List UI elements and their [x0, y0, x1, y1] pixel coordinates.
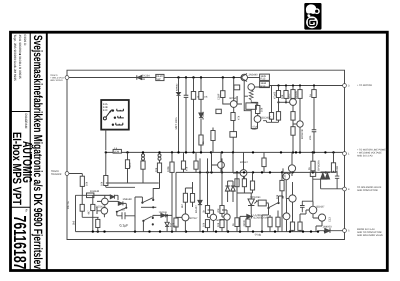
resistor R26b	[220, 220, 224, 228]
svg-text:MKT 100n: MKT 100n	[175, 117, 178, 129]
resistor R6	[231, 113, 235, 121]
transistor Q11 BC547	[289, 195, 296, 202]
svg-text:AND SOLENOID VALVE: AND SOLENOID VALVE	[357, 234, 383, 237]
wire R29	[237, 172, 253, 193]
svg-text:5,6V: 5,6V	[170, 223, 175, 226]
diode D7 BYW29	[325, 173, 329, 179]
component box R22	[234, 85, 240, 90]
transistor Q11b	[283, 213, 290, 220]
svg-text:03/26 D: 03/26 D	[23, 35, 27, 47]
resistor R30	[280, 180, 284, 190]
transistor Q13b	[297, 121, 303, 127]
wire R42 down	[299, 98, 301, 120]
wire D8	[318, 230, 343, 233]
wire D5	[240, 216, 253, 231]
wire right rail a	[344, 87, 346, 151]
resistor R20c	[174, 218, 178, 227]
svg-text:NTC: NTC	[129, 163, 132, 168]
wire x172	[171, 152, 173, 231]
wire Q12b	[306, 201, 313, 218]
svg-text:+ TO MOTOR: + TO MOTOR	[357, 84, 372, 87]
svg-text:DIAGRAM: DIAGRAM	[24, 114, 28, 129]
wire R39	[263, 152, 265, 172]
capacitor C9 box	[312, 90, 316, 98]
svg-text:2N3440: 2N3440	[249, 74, 259, 77]
wire Q12 emitter	[292, 105, 294, 111]
transistor Q10 BC327	[288, 165, 295, 172]
wire R12 v	[92, 195, 94, 231]
svg-text:4541 900289 ■ 910311 B 93535: 4541 900289 ■ 910311 B 93535	[18, 35, 22, 79]
component box R23	[216, 109, 221, 113]
svg-text:S1C: S1C	[103, 109, 108, 112]
wire bus A2	[269, 85, 342, 87]
wire S2c	[117, 203, 127, 215]
wire Q10	[282, 152, 292, 198]
diode D11	[198, 200, 202, 204]
svg-text:BZX79: BZX79	[170, 225, 177, 228]
wire S3	[262, 196, 283, 232]
wire drop x222	[222, 78, 224, 91]
svg-text:BC547: BC547	[240, 161, 248, 164]
resistor R38	[331, 163, 335, 173]
diode D8 1N4003	[325, 228, 330, 233]
diode D13 zener 5V6	[165, 222, 169, 226]
wire R18 top	[159, 160, 161, 188]
resistor R5	[221, 91, 225, 98]
svg-text:BAW62: BAW62	[175, 83, 178, 91]
label box L45	[260, 74, 270, 80]
svg-text:BC547: BC547	[230, 97, 238, 100]
wire R5 to Q4	[223, 98, 231, 105]
wire D14	[108, 201, 126, 203]
title block schematic left frame	[46, 32, 48, 271]
svg-text:TRAFO: TRAFO	[51, 170, 59, 173]
svg-text:1N4148: 1N4148	[123, 198, 133, 201]
wire R41 down	[285, 98, 287, 102]
wire x105 drop	[105, 152, 107, 187]
resistor R3b	[199, 92, 203, 100]
wire Q1 base drop	[243, 81, 245, 96]
wire R25b	[207, 228, 209, 232]
resistor R24	[211, 131, 215, 141]
capacitor C13	[335, 172, 339, 189]
resistor R29a	[235, 179, 239, 187]
transistor Q7	[218, 162, 225, 169]
resistor R19	[170, 162, 174, 172]
svg-text:100k: 100k	[167, 166, 170, 172]
svg-text:NTC: NTC	[288, 94, 291, 99]
junction dots bus D	[92, 230, 327, 232]
terminal X3 to motor	[343, 84, 347, 88]
junction dots bus B	[105, 151, 335, 153]
wire R41b down	[278, 120, 280, 122]
wire R35	[300, 214, 306, 232]
resistor R29c	[250, 181, 254, 190]
switch box S1	[101, 100, 129, 130]
transistor Q10b BC117	[283, 173, 290, 180]
terminal X6 from S4	[343, 229, 347, 233]
resistor R34 comb a	[290, 222, 294, 230]
terminal X2 trafo trigger	[65, 172, 69, 176]
svg-text:5k6: 5k6	[73, 220, 76, 225]
svg-text:10k: 10k	[281, 94, 284, 99]
wire drop x300	[299, 86, 301, 90]
resistor R21b	[181, 161, 185, 169]
wire drop x293	[292, 86, 294, 90]
resistor R39	[262, 158, 266, 167]
svg-text:47u63: 47u63	[273, 91, 276, 99]
transistor Q12	[290, 99, 297, 106]
wire R20b	[192, 188, 194, 207]
svg-text:22n: 22n	[309, 135, 312, 140]
wire R32a	[269, 215, 271, 232]
wire bus A left	[69, 77, 137, 79]
diode D5 zener	[247, 214, 252, 218]
wire R8	[127, 152, 129, 183]
capacitor C7	[300, 201, 305, 212]
svg-text:Nr.: Nr.	[24, 209, 28, 213]
wire y183 line	[106, 182, 159, 184]
diode D3 1N4148	[110, 195, 114, 199]
connector J2	[158, 154, 161, 157]
wire R42c to bus B	[292, 135, 294, 152]
wire y217 row	[82, 216, 98, 218]
resistor R15 box GR4	[246, 103, 256, 109]
diode D1 BY234	[137, 75, 142, 79]
wire bus A mid	[142, 77, 156, 79]
resistor R41	[284, 91, 288, 99]
wire Q1 collector	[248, 77, 260, 79]
transistor Q13 BD437	[318, 214, 325, 221]
svg-text:BYW29A: BYW29A	[318, 160, 321, 171]
wire left rail	[66, 79, 68, 171]
wire Q3 link	[263, 119, 278, 122]
svg-text:4k7: 4k7	[88, 210, 91, 215]
resistor R10	[80, 176, 84, 186]
svg-text:10k: 10k	[86, 181, 89, 186]
wire S2 area	[135, 173, 172, 232]
wire drop x200	[200, 78, 202, 153]
thyristor Q9 TIC106	[248, 199, 254, 206]
svg-text:BY399: BY399	[202, 111, 205, 119]
svg-text:10k: 10k	[155, 167, 158, 172]
svg-text:BD135: BD135	[295, 91, 298, 99]
wire C9 down	[313, 98, 315, 130]
resistor R18	[157, 163, 161, 173]
svg-text:47k: 47k	[217, 208, 220, 213]
transistor Q4 BC547	[230, 101, 237, 108]
wire Q4 down	[232, 121, 235, 153]
resistor R28	[246, 219, 250, 227]
switch lever S2c	[117, 208, 126, 212]
title block divider horizontal 1	[11, 111, 30, 113]
wire T2 right	[69, 174, 110, 232]
capacitor C10	[312, 130, 317, 132]
svg-text:10k: 10k	[217, 222, 220, 227]
wire top mid drop x271	[271, 86, 273, 113]
wire R17	[97, 217, 99, 231]
resistor R29b	[242, 179, 246, 187]
resistor R20b	[190, 194, 194, 203]
svg-text:10k: 10k	[276, 194, 279, 199]
svg-text:0,1µF: 0,1µF	[120, 224, 129, 228]
wire bus B	[106, 151, 343, 153]
switch S2a	[143, 198, 153, 203]
resistor R11 5k6	[80, 204, 84, 211]
wire D11	[199, 158, 201, 231]
wire C5	[129, 216, 135, 218]
transistor Q5 BC547	[101, 208, 108, 215]
svg-text:1N4003: 1N4003	[323, 225, 333, 228]
wire drop x278.5	[278, 86, 280, 91]
connector J1	[142, 154, 145, 157]
transistor Q1 2N3440	[241, 74, 248, 81]
wire y187 line	[106, 186, 135, 188]
wire R11 v	[81, 195, 83, 217]
wire R8b	[142, 160, 144, 183]
diode D6 BYW29	[321, 173, 325, 179]
resistor R42	[298, 90, 302, 99]
svg-text:1N4148: 1N4148	[159, 211, 168, 214]
wire Q7	[212, 152, 222, 172]
title block divider vertical company/left column	[29, 32, 31, 271]
wire x312.8	[302, 152, 321, 201]
resistor R35 comb b	[298, 222, 302, 230]
wire R21c	[195, 152, 197, 172]
svg-text:BD241C: BD241C	[262, 116, 272, 119]
diode D2	[199, 113, 203, 118]
wire drop x314	[313, 86, 315, 90]
wire transistor row link	[279, 101, 290, 103]
drawing outer frame	[11, 32, 388, 270]
title block divider horizontal 2	[11, 206, 30, 208]
terminal X1 trafo welding voltage	[65, 76, 69, 80]
wire R34	[292, 230, 294, 231]
switch S2b	[144, 216, 152, 220]
svg-text:C117: C117	[284, 172, 287, 179]
resistor R17	[96, 219, 100, 227]
diode D9 zener	[225, 186, 229, 191]
svg-text:R13: R13	[261, 78, 266, 81]
svg-text:Tegn. JBS 900289 Godk.JM 89: Tegn. JBS 900289 Godk.JM 8935	[13, 35, 17, 82]
svg-text:AND S4 11-A3: AND S4 11-A3	[357, 154, 373, 157]
svg-text:47k: 47k	[238, 115, 241, 120]
wire Q4 emitter	[234, 78, 242, 113]
wire Q15	[222, 158, 227, 231]
terminal X5 solenoid valve	[343, 187, 347, 191]
wire right rail c	[344, 191, 346, 229]
svg-text:76116187: 76116187	[10, 216, 30, 270]
box R40a	[269, 113, 273, 120]
wire bus A right	[164, 77, 241, 79]
svg-text:220R: 220R	[243, 220, 246, 226]
wire Q6	[176, 202, 185, 231]
svg-text:AND CONTACTOR: AND CONTACTOR	[357, 189, 378, 192]
wire R38	[333, 152, 335, 162]
junction dots bus C	[199, 171, 327, 173]
wire R42b	[292, 120, 294, 127]
wire Q9	[237, 193, 257, 214]
svg-text:TRIGGER: TRIGGER	[51, 173, 62, 176]
resistor R7 box	[230, 132, 237, 138]
svg-text:BC547: BC547	[96, 206, 104, 209]
resistor R42c	[291, 127, 295, 136]
wire Q14	[208, 158, 214, 231]
wire R32b	[277, 211, 279, 232]
label box L44	[260, 81, 270, 87]
resistor R8 NTC	[125, 160, 129, 169]
transistor Q14	[210, 214, 216, 220]
svg-text:EI-box MPS VPT: EI-box MPS VPT	[10, 132, 24, 206]
svg-text:5W: 5W	[157, 78, 161, 81]
wire Q11	[287, 182, 293, 232]
logo Migatronic badge	[304, 3, 321, 30]
svg-text:BZX85C6V8: BZX85C6V8	[254, 217, 269, 220]
capacitor C8 47u	[276, 91, 280, 98]
resistor R36	[311, 161, 315, 171]
diode D4 1N4148	[161, 213, 166, 217]
wire R27	[236, 172, 238, 231]
transistor Q5a BC547	[102, 198, 109, 205]
wire Q2 to bus A2	[255, 85, 270, 87]
resistor R41b	[276, 112, 280, 121]
junction y173 bus C	[176, 172, 330, 214]
resistor R16 10k	[256, 106, 260, 114]
wire C13	[334, 171, 338, 173]
svg-text:AND TACHO: AND TACHO	[50, 79, 63, 82]
svg-text:100R: 100R	[336, 166, 339, 172]
wire R24	[212, 128, 214, 153]
wire S1 drop	[105, 130, 107, 151]
resistor R27	[235, 218, 239, 227]
svg-text:D6: D6	[142, 78, 146, 81]
resistor R8b	[141, 161, 145, 169]
svg-text:BD437: BD437	[317, 206, 325, 209]
svg-text:BC547: BC547	[217, 219, 225, 222]
wire R20	[185, 182, 192, 193]
transistor Q3 BD241C	[254, 116, 261, 123]
wire bus D	[76, 230, 319, 233]
wire R28	[247, 218, 249, 231]
svg-text:10k: 10k	[261, 107, 264, 112]
svg-text:TIC106D: TIC106D	[250, 196, 261, 199]
diode D12 BAW62	[176, 92, 180, 95]
svg-text:LEM: LEM	[114, 151, 119, 154]
relay box K1	[258, 200, 266, 206]
wire drop x192	[193, 78, 195, 153]
switch S3	[269, 203, 278, 208]
wire diode rail	[321, 171, 343, 189]
svg-text:10k: 10k	[202, 222, 205, 227]
wire C8 down	[278, 98, 280, 112]
resistor R12 4k7	[91, 204, 95, 210]
svg-text:BA157: BA157	[195, 205, 198, 213]
diode D14 1N4148	[118, 201, 123, 205]
resistor R1 box	[156, 74, 164, 80]
wire left rail lower	[67, 175, 345, 239]
wire C10 to bus B	[313, 132, 315, 153]
wire S2a mid	[141, 206, 156, 208]
wire right rail b	[344, 155, 346, 187]
wire Q5 links	[97, 195, 105, 217]
svg-text:0Vdg: 0Vdg	[255, 234, 262, 237]
resistor R25a	[205, 206, 209, 214]
wire R21b	[183, 152, 185, 172]
resistor R42a	[291, 90, 295, 99]
svg-text:20k 1%: 20k 1%	[67, 201, 70, 209]
resistor R13 h	[87, 193, 94, 198]
wire D9 D10	[228, 181, 233, 202]
wire R16 top	[251, 102, 258, 106]
resistor R4	[199, 135, 203, 145]
wire top bus	[67, 70, 345, 83]
inductor L1 LEM box	[113, 149, 121, 153]
wire drop x286	[285, 86, 287, 91]
wire Q2 emitter down	[244, 96, 251, 111]
wire drop x185	[185, 78, 187, 153]
capacitor C5	[117, 212, 129, 219]
wire R30	[282, 168, 283, 231]
resistor R20	[183, 193, 187, 202]
junction dots bus A	[177, 76, 315, 103]
svg-text:R13: R13	[261, 85, 266, 88]
transistor Q2 BD249	[248, 84, 255, 91]
resistor R3	[191, 92, 195, 100]
terminal X4 motor line power	[343, 152, 347, 156]
transistor Q8 BC547	[240, 170, 247, 177]
svg-text:10k: 10k	[101, 181, 104, 186]
resistor R14 wirewound 0R47	[249, 90, 253, 103]
svg-text:63V: 63V	[252, 128, 257, 131]
transistor Q12b BD437	[309, 206, 317, 214]
svg-text:C13: C13	[329, 217, 332, 222]
capacitor C1	[184, 95, 189, 97]
diode D10 zener	[231, 186, 235, 191]
wire R26b	[221, 228, 223, 232]
wire Q13	[313, 214, 322, 232]
resistor R9	[104, 176, 108, 186]
svg-text:47k: 47k	[186, 166, 189, 171]
wire Q3 links	[251, 111, 258, 129]
svg-text:C5: C5	[122, 209, 126, 212]
resistor R25b	[205, 220, 209, 228]
resistor R32a	[268, 217, 272, 227]
tiny labels	[50, 74, 388, 238]
transistor Q6 BC557	[182, 214, 189, 221]
wire Q8	[233, 152, 244, 178]
svg-text:BC557: BC557	[190, 217, 198, 220]
transistor Q15	[224, 214, 230, 220]
resistor R42b	[291, 112, 295, 121]
svg-text:1N4148: 1N4148	[90, 190, 100, 193]
svg-text:C28F: C28F	[218, 93, 221, 100]
box R37	[310, 172, 315, 176]
resistor R26a	[220, 206, 224, 214]
svg-text:4k7: 4k7	[181, 203, 184, 208]
resistor R21c	[194, 161, 198, 169]
resistor R32b	[276, 217, 280, 227]
svg-text:BC547B: BC547B	[301, 129, 304, 139]
wire drop x179	[178, 78, 180, 153]
wire Q13b to bus B	[293, 124, 300, 152]
